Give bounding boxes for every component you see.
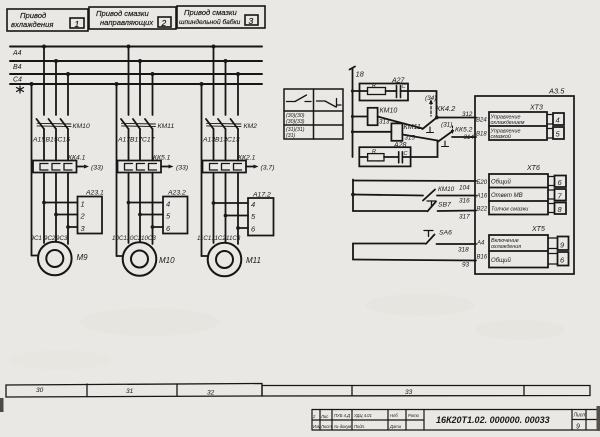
svg-text:В18: В18 [476,132,487,138]
svg-text:А4: А4 [12,50,22,57]
svg-text:В22: В22 [477,207,488,213]
svg-text:11С2: 11С2 [212,235,227,242]
svg-text:КМ10: КМ10 [380,108,398,115]
svg-text:А4: А4 [476,241,485,247]
svg-text:(33): (33) [91,165,103,172]
svg-text:32: 32 [207,390,215,397]
svg-text:шпиндельной бабки: шпиндельной бабки [179,18,241,26]
svg-text:Привод смазки: Привод смазки [96,9,149,18]
svg-text:КМ11: КМ11 [404,124,421,131]
svg-text:6: 6 [560,256,565,265]
svg-text:КК2.1: КК2.1 [238,155,256,162]
svg-text:А23.2: А23.2 [167,190,186,197]
svg-text:М9: М9 [77,253,89,262]
svg-text:1: 1 [81,200,85,209]
svg-text:318: 318 [458,247,469,254]
svg-text:9С2: 9С2 [44,235,56,242]
svg-text:ХТ3: ХТ3 [529,105,543,112]
svg-text:А3.5: А3.5 [548,87,565,96]
svg-text:(30)(33): (30)(33) [286,119,305,125]
svg-text:31: 31 [126,388,134,395]
svg-text:В17: В17 [130,137,142,144]
svg-text:2: 2 [161,18,167,28]
svg-text:Привод: Привод [20,11,46,20]
svg-text:33: 33 [405,389,413,396]
svg-text:Лис: Лис [320,414,329,419]
svg-text:16К20Т1.02. 000000. 00033: 16К20Т1.02. 000000. 00033 [436,415,550,425]
svg-text:2: 2 [312,414,316,419]
svg-text:(33): (33) [176,165,188,172]
svg-text:9: 9 [560,241,565,250]
svg-text:312: 312 [462,111,473,118]
svg-text:В24: В24 [476,118,487,124]
svg-text:3: 3 [81,224,86,233]
svg-text:Дата: Дата [389,424,402,429]
svg-text:Общий: Общий [491,257,511,264]
svg-text:18: 18 [356,70,365,79]
svg-text:314: 314 [464,134,475,141]
svg-text:В16: В16 [477,255,488,261]
svg-text:С13: С13 [227,137,240,144]
svg-text:ХТ6: ХТ6 [526,165,540,172]
svg-text:Лист: Лист [573,413,587,419]
svg-text:А17.2: А17.2 [252,192,271,199]
svg-text:Рото: Рото [408,413,420,418]
svg-text:А28: А28 [393,142,407,149]
svg-text:С15: С15 [58,137,71,144]
svg-text:ХТ5: ХТ5 [531,226,545,233]
svg-text:(31)(31): (31)(31) [286,127,305,133]
svg-text:УДЦ 4.01: УДЦ 4.01 [354,413,372,418]
svg-text:6: 6 [558,178,563,187]
svg-text:А16: А16 [476,194,488,200]
svg-text:4: 4 [556,116,560,125]
svg-text:4: 4 [251,200,255,209]
svg-text:охлаждением: охлаждением [491,120,525,126]
svg-text:(31): (31) [441,122,452,129]
svg-text:8: 8 [558,205,563,214]
svg-text:Лист: Лист [320,424,332,429]
svg-text:5: 5 [251,212,256,221]
svg-text:Б20: Б20 [477,180,488,186]
svg-text:С4: С4 [13,77,22,84]
svg-text:9С1: 9С1 [31,235,42,242]
svg-text:КК4.1: КК4.1 [68,155,86,162]
svg-text:SВ7: SВ7 [438,202,451,209]
svg-text:КМ2: КМ2 [244,123,258,130]
svg-text:КМ10: КМ10 [73,123,90,130]
svg-text:11С3: 11С3 [226,235,241,242]
svg-text:КМ10: КМ10 [438,186,455,193]
svg-text:5: 5 [166,212,171,221]
svg-text:КМ11: КМ11 [158,123,175,130]
svg-text:В15: В15 [46,137,58,144]
svg-text:Толчок смазки: Толчок смазки [491,207,528,213]
svg-text:№ докум.: № докум. [334,424,352,429]
svg-text:вхлаждения: вхлаждения [11,20,53,29]
svg-text:ПУБ 4.Д: ПУБ 4.Д [334,413,350,418]
svg-text:(31): (31) [286,133,295,139]
svg-text:10С3: 10С3 [141,235,156,242]
svg-text:А17: А17 [117,137,130,144]
svg-text:охлаждения: охлаждения [491,244,521,250]
svg-text:А13: А13 [202,137,215,144]
svg-text:316: 316 [459,198,470,205]
svg-text:М10: М10 [159,256,175,265]
svg-text:93: 93 [462,262,470,269]
svg-text:Изм: Изм [313,424,321,429]
svg-text:1: 1 [75,19,80,29]
svg-text:317: 317 [459,214,470,221]
svg-text:КК5.1: КК5.1 [153,155,171,162]
svg-text:Ответ МВ: Ответ МВ [491,193,523,199]
svg-text:(34): (34) [425,95,436,102]
svg-text:КК5.2: КК5.2 [455,127,473,134]
svg-text:R: R [372,149,376,155]
svg-text:направляющих: направляющих [100,18,154,27]
svg-text:С17: С17 [142,137,155,144]
svg-text:Общий: Общий [491,179,511,186]
svg-text:(30)(30): (30)(30) [286,113,305,119]
svg-text:10С2: 10С2 [127,235,142,242]
svg-text:Подп.: Подп. [354,424,365,429]
svg-text:9С3: 9С3 [56,235,68,242]
svg-text:В4: В4 [13,64,22,71]
svg-text:5: 5 [556,130,561,139]
svg-text:Привод смазки: Привод смазки [184,8,237,17]
svg-text:11С1: 11С1 [197,235,211,242]
svg-text:9: 9 [576,424,580,431]
svg-text:КК4.2: КК4.2 [436,104,456,113]
svg-text:SА6: SА6 [439,230,452,237]
svg-text:R: R [372,83,376,89]
svg-text:смазкой: смазкой [491,133,511,140]
svg-text:М11: М11 [246,256,261,265]
svg-text:2: 2 [80,212,86,221]
svg-text:6: 6 [166,224,171,233]
svg-text:30: 30 [36,387,44,394]
svg-text:7: 7 [558,192,563,201]
svg-text:В13: В13 [215,137,227,144]
svg-text:А23.1: А23.1 [85,190,104,197]
svg-text:С: С [404,151,408,157]
svg-text:3: 3 [249,16,254,26]
svg-text:6: 6 [251,225,256,234]
svg-text:(3,7): (3,7) [261,165,275,172]
svg-text:Нлб: Нлб [390,413,398,418]
svg-text:4: 4 [166,200,170,209]
svg-text:10С1: 10С1 [112,235,127,242]
svg-text:А15: А15 [32,137,45,144]
svg-text:104: 104 [459,185,470,192]
svg-text:С: С [402,84,406,90]
